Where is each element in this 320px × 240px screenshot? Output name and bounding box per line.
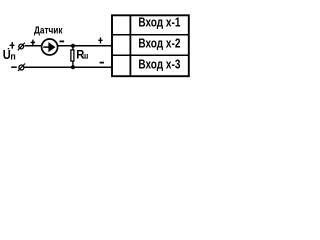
svg-text:Датчик: Датчик (34, 25, 63, 36)
svg-text:ш: ш (83, 52, 88, 61)
svg-text:Вход х-2: Вход х-2 (138, 37, 180, 51)
svg-text:п: п (10, 51, 16, 62)
svg-text:Вход х-1: Вход х-1 (138, 16, 180, 30)
svg-text:Вход х-3: Вход х-3 (138, 58, 180, 72)
